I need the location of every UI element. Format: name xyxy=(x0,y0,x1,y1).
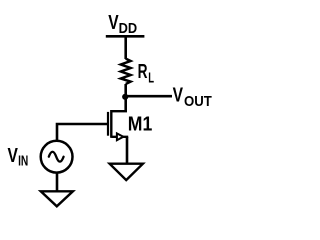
net label V_DD xyxy=(108,12,137,37)
V_DD supply bar xyxy=(106,35,145,38)
source V_IN (AC source) xyxy=(41,141,73,173)
M1 gate bar xyxy=(107,112,109,136)
svg-text:L: L xyxy=(148,70,154,87)
net label V_OUT xyxy=(173,85,212,110)
ground (V_IN) xyxy=(41,191,73,206)
svg-text:V: V xyxy=(173,85,184,107)
transistor M1 (NMOS) xyxy=(108,110,128,140)
wire: output node to V_OUT label xyxy=(126,95,172,98)
wire: V_IN bottom to ground xyxy=(56,173,59,192)
node: output junction dot xyxy=(122,94,128,100)
M1 drain lead xyxy=(111,110,127,112)
wire: M1 source to ground xyxy=(126,137,129,164)
sine wave xyxy=(49,152,64,162)
svg-text:IN: IN xyxy=(18,152,28,169)
svg-text:R: R xyxy=(138,61,148,83)
M1 source arrow xyxy=(117,133,123,140)
svg-text:V: V xyxy=(108,12,119,34)
resistor R_L value label xyxy=(138,61,154,87)
wire: V_IN top to M1 gate xyxy=(57,124,108,140)
svg-text:M1: M1 xyxy=(128,113,153,135)
ground (M1 source) xyxy=(110,164,143,180)
M1 channel bar xyxy=(110,110,112,138)
wire: resistor bottom through output node to drain xyxy=(124,84,127,111)
svg-text:OUT: OUT xyxy=(184,93,212,110)
svg-text:DD: DD xyxy=(119,20,138,37)
svg-text:V: V xyxy=(8,145,19,167)
net label V_IN xyxy=(8,145,29,169)
resistor R_L xyxy=(121,59,131,84)
wire: V_DD bar to resistor top xyxy=(124,36,127,59)
M1 source lead xyxy=(111,136,128,138)
